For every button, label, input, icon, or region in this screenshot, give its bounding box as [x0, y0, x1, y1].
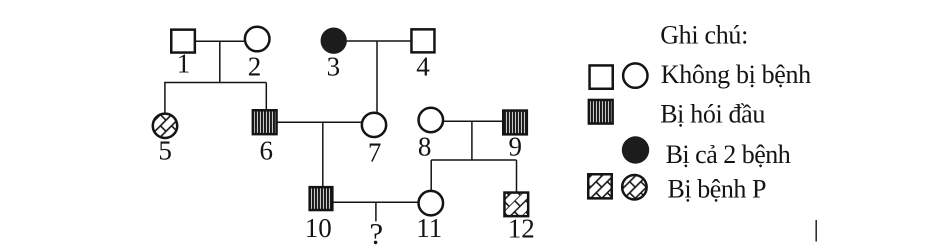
svg-text:3: 3: [327, 51, 341, 81]
individual 8: unaffected female circle: [419, 108, 444, 133]
individual 12: male with disease P (diagonal brick hatch square): [504, 193, 528, 217]
wire sibling line family 8-9: [431, 159, 516, 161]
svg-text:Bị cả 2 bệnh: Bị cả 2 bệnh: [666, 140, 791, 169]
svg-text:?: ?: [369, 216, 383, 251]
wire couple line 1-2: [196, 40, 245, 42]
wire couple line 8-9: [444, 120, 504, 122]
svg-text:7: 7: [368, 137, 382, 167]
wire couple line 10-11: [334, 201, 419, 203]
wire drop from couple 1-2: [219, 41, 221, 82]
legend unaffected square: [590, 65, 613, 88]
svg-text:2: 2: [248, 52, 262, 82]
legend bald square (stripes): [589, 100, 613, 124]
wire couple line 6-7: [278, 121, 362, 123]
legend both-diseases filled circle: [622, 136, 649, 163]
svg-text:1: 1: [177, 48, 191, 78]
wire drop to square 6: [265, 83, 267, 111]
svg-text:Ghi chú:: Ghi chú:: [660, 21, 748, 50]
individual 6: bald male (vertical stripe square): [253, 110, 277, 134]
text cursor artifact: [815, 220, 817, 242]
svg-text:12: 12: [508, 214, 535, 244]
wire drop to square 12: [516, 160, 518, 192]
individual 10: bald male (vertical stripe square): [310, 187, 333, 210]
wire sibling line family 1-2: [164, 82, 266, 84]
individual 7: unaffected female circle: [362, 113, 386, 137]
wire couple line 3-4: [346, 40, 411, 42]
individual 2: unaffected female circle: [245, 27, 270, 52]
individual 1: unaffected male square: [171, 30, 195, 53]
svg-text:4: 4: [416, 51, 430, 81]
wire short drop to ? child: [375, 202, 377, 221]
individual 9: bald male (vertical stripe square): [503, 111, 527, 135]
wire drop to circle 5: [164, 83, 166, 114]
svg-text:8: 8: [418, 132, 432, 162]
svg-text:Không bị bệnh: Không bị bệnh: [661, 60, 811, 89]
wire drop from couple 6-7 to square 10: [322, 122, 324, 187]
individual 11: unaffected female circle: [419, 191, 444, 216]
individual 4: unaffected male square: [411, 29, 434, 52]
individual 5: female with disease P (diagonal brick hatch circle): [153, 114, 177, 138]
legend disease P circle (brick hatch): [622, 175, 647, 200]
svg-text:Bị bệnh P: Bị bệnh P: [668, 175, 767, 204]
wire drop to circle 11: [430, 160, 432, 191]
wire drop from couple 8-9: [471, 121, 473, 160]
svg-text:Bị hói đầu: Bị hói đầu: [660, 100, 765, 129]
individual 3: affected female filled circle: [321, 28, 347, 54]
wire drop from couple 3-4 to circle 7: [376, 41, 378, 113]
legend unaffected circle: [623, 63, 647, 87]
svg-text:5: 5: [158, 135, 172, 165]
svg-text:9: 9: [509, 132, 523, 162]
svg-text:11: 11: [416, 213, 442, 243]
svg-text:6: 6: [260, 135, 274, 165]
legend disease P square (brick hatch): [588, 174, 612, 198]
svg-text:10: 10: [305, 213, 332, 243]
